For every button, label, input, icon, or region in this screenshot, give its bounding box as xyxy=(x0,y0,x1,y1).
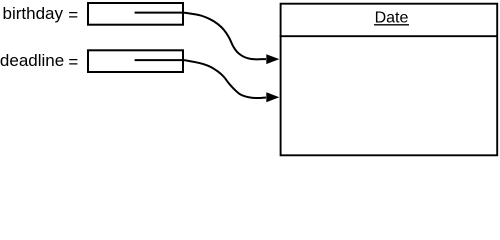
arrowhead birthday xyxy=(266,54,279,64)
arrow curve birthday xyxy=(184,13,266,60)
svg-text:deadline: deadline xyxy=(0,51,64,70)
object box Date xyxy=(281,4,498,156)
svg-text:=: = xyxy=(68,5,78,24)
arrowhead deadline xyxy=(266,92,279,102)
header separator xyxy=(280,35,498,37)
arrow curve deadline xyxy=(184,60,266,98)
svg-text:Date: Date xyxy=(375,10,409,27)
reference line deadline xyxy=(135,59,184,61)
underline Date xyxy=(374,24,409,26)
svg-text:birthday: birthday xyxy=(3,4,64,23)
variable box birthday xyxy=(88,3,183,25)
variable box deadline xyxy=(88,50,183,72)
svg-text:=: = xyxy=(68,53,78,72)
reference line birthday xyxy=(135,12,184,14)
